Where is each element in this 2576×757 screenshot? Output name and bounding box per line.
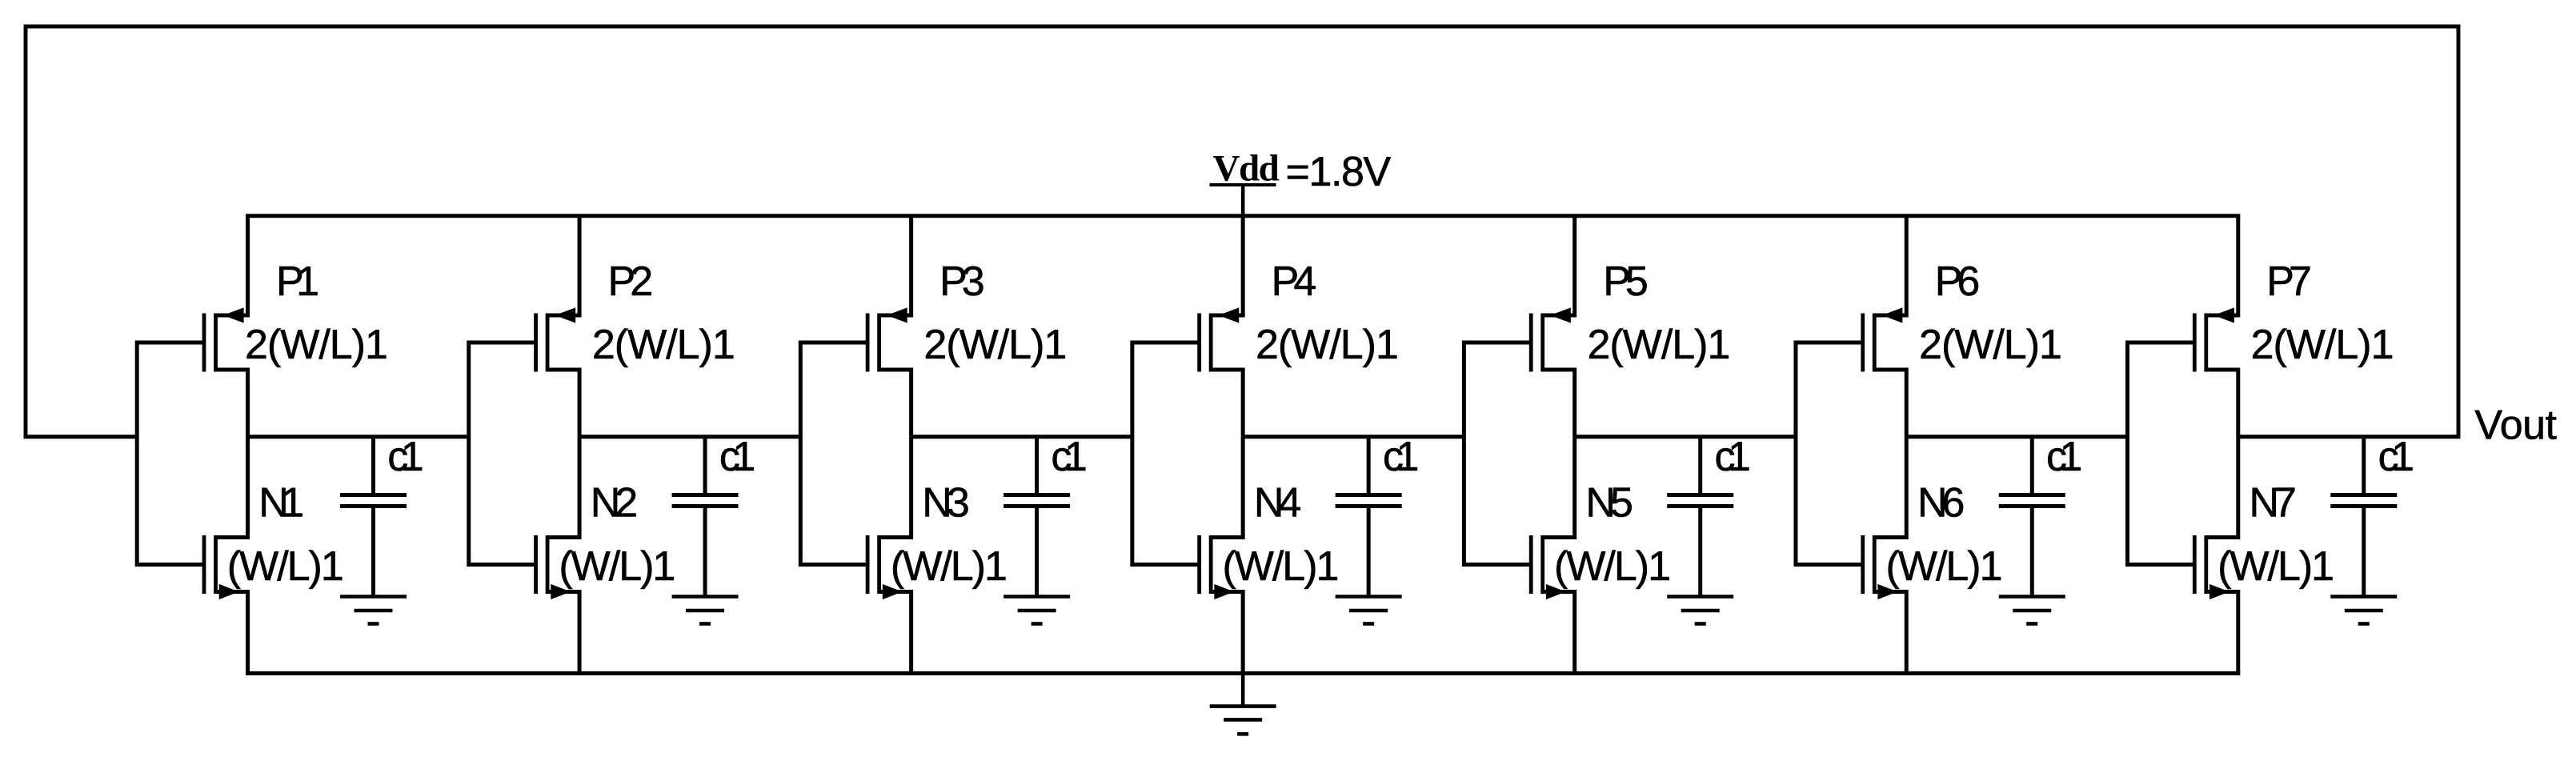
svg-text:N7: N7 (2249, 480, 2296, 527)
svg-text:P2: P2 (608, 258, 652, 305)
svg-text:P3: P3 (939, 258, 984, 305)
svg-text:Vdd: Vdd (1213, 147, 1280, 189)
svg-text:=1.8V: =1.8V (1286, 149, 1392, 195)
svg-text:2(W/L)1: 2(W/L)1 (2251, 322, 2394, 368)
svg-text:(W/L)1: (W/L)1 (559, 543, 674, 590)
svg-text:2(W/L)1: 2(W/L)1 (923, 322, 1066, 368)
svg-text:N3: N3 (922, 480, 968, 527)
svg-text:P6: P6 (1935, 258, 1979, 305)
svg-text:P5: P5 (1603, 258, 1647, 305)
svg-text:(W/L)1: (W/L)1 (1222, 543, 1337, 590)
svg-text:P7: P7 (2266, 258, 2310, 305)
svg-text:(W/L)1: (W/L)1 (1554, 543, 1669, 590)
svg-text:N2: N2 (591, 480, 637, 527)
svg-text:N4: N4 (1254, 480, 1301, 527)
svg-text:N5: N5 (1585, 480, 1632, 527)
svg-text:(W/L)1: (W/L)1 (1886, 543, 2001, 590)
svg-text:P4: P4 (1272, 258, 1316, 305)
svg-text:(W/L)1: (W/L)1 (891, 543, 1006, 590)
svg-text:2(W/L)1: 2(W/L)1 (245, 322, 387, 368)
svg-text:N1: N1 (258, 480, 302, 527)
svg-text:P1: P1 (276, 258, 318, 305)
svg-text:2(W/L)1: 2(W/L)1 (1919, 322, 2061, 368)
svg-text:Vout: Vout (2474, 403, 2557, 449)
svg-text:2(W/L)1: 2(W/L)1 (1256, 322, 1398, 368)
svg-text:2(W/L)1: 2(W/L)1 (1588, 322, 1730, 368)
svg-text:2(W/L)1: 2(W/L)1 (592, 322, 735, 368)
svg-text:(W/L)1: (W/L)1 (227, 543, 343, 590)
svg-text:N6: N6 (1917, 480, 1964, 527)
svg-text:(W/L)1: (W/L)1 (2217, 543, 2333, 590)
